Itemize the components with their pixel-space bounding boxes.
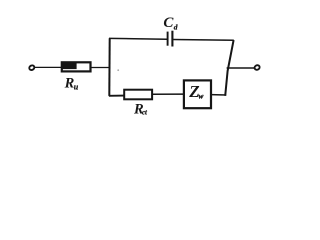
resistor Ru (box) — [61, 62, 90, 71]
Warburg impedance element Zw (box) — [184, 80, 211, 108]
terminal: left input — [28, 65, 35, 71]
svg-text:w: w — [198, 91, 204, 100]
svg-text:d: d — [174, 22, 178, 31]
label Cd — [163, 15, 177, 31]
label Zw — [188, 82, 204, 101]
stray scan speck near node A — [117, 69, 119, 71]
capacitor Cd — [168, 31, 173, 47]
label Ru — [64, 76, 79, 92]
wire: top branch, Cd to node B — [173, 39, 234, 42]
wire: Ru to node A — [91, 67, 111, 69]
node B: right junction vertical bus — [225, 40, 233, 96]
resistor Rct (box) — [124, 90, 152, 100]
wire: Zw to node B — [211, 94, 226, 96]
wire: node B to output terminal — [227, 67, 255, 69]
wire: bottom branch, node A to Rct — [109, 95, 125, 97]
wire: top branch, node A to Cd — [109, 37, 167, 40]
wire: input terminal to Ru — [35, 66, 62, 68]
svg-text:ct: ct — [142, 110, 148, 117]
wire: Rct to Zw — [152, 93, 184, 95]
terminal: right output — [254, 64, 261, 70]
node A: left junction vertical bus — [108, 38, 110, 96]
label Rct — [133, 102, 148, 118]
svg-text:u: u — [74, 83, 79, 92]
